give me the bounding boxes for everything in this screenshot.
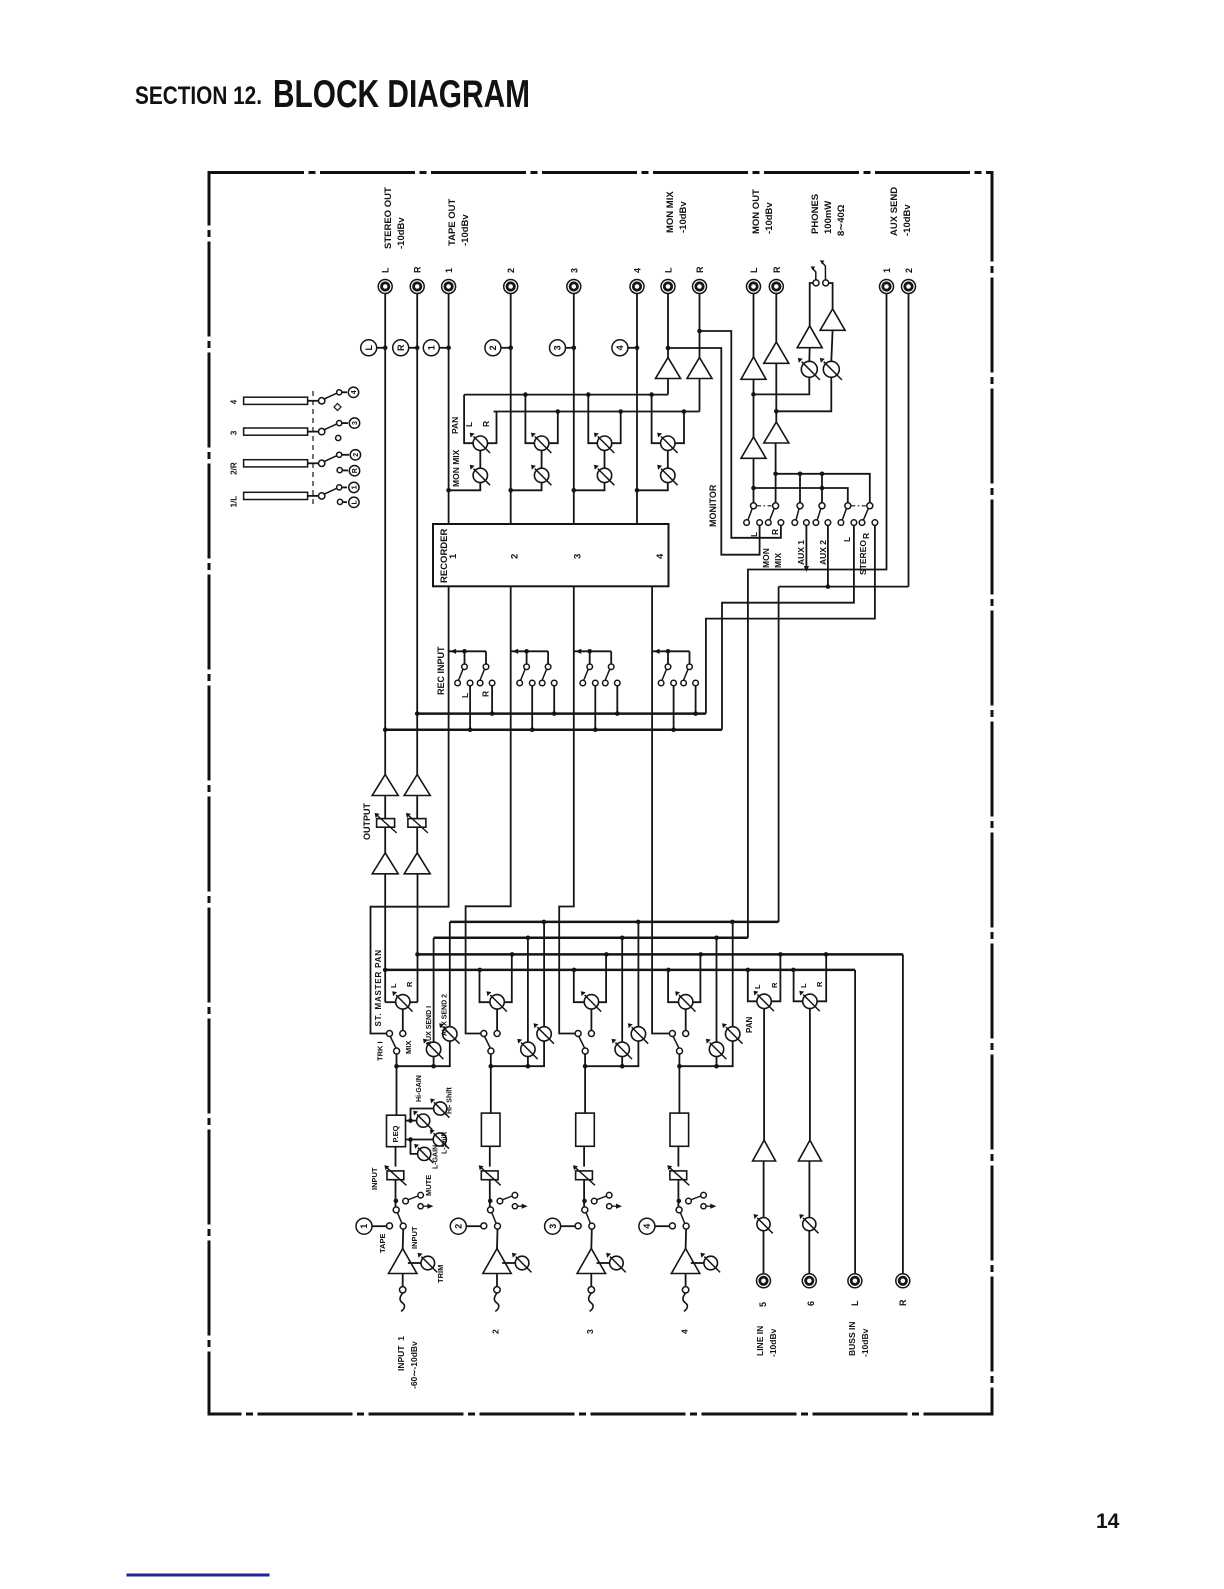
node ref L (tap on L line) bbox=[361, 340, 388, 356]
wire ch3 block to fader bbox=[583, 1147, 585, 1167]
label MON MIX -10dBv bbox=[665, 191, 689, 233]
svg-text:-10dBv: -10dBv bbox=[460, 214, 471, 246]
svg-text:LINE IN: LINE IN bbox=[755, 1326, 765, 1356]
svg-text:3: 3 bbox=[585, 1329, 595, 1334]
labels line pan L R bbox=[745, 981, 824, 1033]
wire mon mix pot 3 input tap bbox=[572, 483, 605, 493]
jack BUSS IN R bbox=[896, 1274, 910, 1288]
svg-text:PHONES: PHONES bbox=[810, 194, 821, 234]
pot TRIM ch1 bbox=[408, 1253, 437, 1273]
svg-text:MON OUT: MON OUT bbox=[751, 189, 762, 234]
node meter select 3 bbox=[336, 418, 360, 441]
fader INPUT ch3 bbox=[573, 1165, 595, 1185]
wire rec line 1 (recorder to trk1 feed) bbox=[371, 586, 449, 1033]
op-amp MON OUT R (driver) bbox=[764, 342, 789, 363]
wire rec input 4 L to bus bbox=[671, 686, 676, 732]
svg-text:MONITOR: MONITOR bbox=[708, 484, 718, 527]
label REC INPUT bbox=[436, 646, 446, 695]
svg-text:R: R bbox=[481, 421, 491, 427]
svg-text:3: 3 bbox=[230, 430, 239, 435]
wire ch3 input jack lead bbox=[590, 1274, 592, 1287]
op-amp line in 6 bbox=[798, 1140, 821, 1161]
svg-text:1/L: 1/L bbox=[230, 496, 239, 508]
switch monitor select 6 bbox=[859, 503, 878, 526]
svg-text:INPUT 1: INPUT 1 bbox=[396, 1336, 406, 1371]
wire master L bus riser bbox=[383, 874, 388, 1002]
jack mon mix R bbox=[693, 266, 707, 294]
wire ch2 trunk upper bbox=[489, 1054, 494, 1115]
svg-text:3: 3 bbox=[548, 1224, 558, 1229]
wire aux2 ch1 riser bbox=[449, 922, 451, 1027]
svg-text:2: 2 bbox=[353, 453, 360, 457]
node meter select 2/R bbox=[337, 450, 360, 476]
svg-text:L-GAIN: L-GAIN bbox=[433, 1145, 440, 1169]
svg-text:P.EQ: P.EQ bbox=[391, 1125, 400, 1142]
wire line5 pan L leg bbox=[748, 970, 757, 1001]
input jack ch2 bbox=[494, 1287, 500, 1312]
bus stereo master R (y=954.4) bbox=[418, 952, 903, 957]
svg-text:3: 3 bbox=[352, 421, 359, 425]
wire line5 pan R leg bbox=[771, 954, 780, 1001]
bus monitor select L (y=488) bbox=[754, 486, 848, 503]
pot LINE PAN 6 bbox=[799, 991, 819, 1011]
wire mon mix L tap to monitor switch bbox=[666, 346, 760, 555]
svg-text:MON MIX: MON MIX bbox=[665, 191, 676, 233]
svg-text:L: L bbox=[749, 532, 759, 537]
wire ch2 input jack lead bbox=[496, 1274, 498, 1287]
svg-text:TRK I: TRK I bbox=[376, 1041, 385, 1061]
wire rec line 3 (recorder to trk3 feed) bbox=[559, 586, 575, 1033]
jack mon mix L bbox=[661, 267, 675, 294]
switch MIX/TRK ch1 bbox=[387, 1031, 406, 1055]
input jack ch4 bbox=[682, 1287, 688, 1312]
svg-text:L: L bbox=[753, 984, 762, 989]
bus aux send 2 link bbox=[779, 584, 909, 589]
node ref 3 (tap on 3 line) bbox=[550, 340, 577, 356]
switch MUTE ch3 bbox=[591, 1192, 622, 1208]
svg-text:AUX 1: AUX 1 bbox=[796, 540, 806, 565]
wire rec line 2 (recorder to trk2 feed) bbox=[466, 586, 511, 1033]
wire pan 3 R leg bbox=[612, 412, 621, 444]
wire aux1 ch4 riser bbox=[716, 938, 718, 1042]
wire ch3 input contact to trim amp bbox=[590, 1229, 593, 1249]
wire eq lo tap bbox=[406, 1137, 434, 1142]
pot ST MASTER PAN ch3 bbox=[581, 991, 601, 1011]
svg-text:1: 1 bbox=[427, 345, 437, 350]
phones plug contacts bbox=[811, 260, 829, 286]
svg-text:BLOCK DIAGRAM: BLOCK DIAGRAM bbox=[273, 73, 530, 116]
input jack ch1 bbox=[400, 1287, 406, 1312]
wire ch2 aux tap bbox=[491, 1041, 544, 1068]
svg-text:R: R bbox=[861, 533, 871, 539]
svg-text:BUSS IN: BUSS IN bbox=[847, 1322, 857, 1356]
input jack ch3 bbox=[588, 1287, 594, 1312]
jack mon out R bbox=[769, 266, 783, 294]
wire aux1 pole to buses bbox=[799, 474, 801, 506]
wire rec input 3 L to bus bbox=[593, 686, 598, 732]
op-amp output L (sum amp) bbox=[372, 853, 398, 874]
wire stereo L source feed bbox=[722, 526, 854, 730]
svg-text:100mW: 100mW bbox=[823, 201, 834, 234]
wire stereo-out R jack to output amp R bbox=[416, 294, 418, 775]
svg-text:R: R bbox=[772, 266, 782, 273]
wire ch2 fader to mute bbox=[488, 1180, 493, 1207]
pot AUX SEND 1 ch3 bbox=[612, 1039, 632, 1067]
wire pan 2 R leg bbox=[549, 412, 558, 444]
label L/R pan outs bbox=[464, 421, 491, 427]
wire rec input 1 L to bus bbox=[468, 686, 473, 732]
meter bar 3 bbox=[230, 421, 342, 436]
wire ch4 input contact to trim amp bbox=[685, 1229, 688, 1249]
svg-text:5: 5 bbox=[758, 1302, 768, 1307]
svg-text:MIX: MIX bbox=[404, 1041, 413, 1054]
op-amp TRIM ch3 bbox=[577, 1249, 605, 1274]
label PAN (pots) bbox=[450, 417, 460, 434]
svg-text:PAN: PAN bbox=[450, 417, 460, 434]
pot line in 6 trim bbox=[799, 1214, 818, 1233]
svg-text:8∼40Ω: 8∼40Ω bbox=[836, 204, 847, 236]
svg-text:4: 4 bbox=[351, 390, 358, 394]
wire mon mix R amp out to jack bbox=[699, 294, 701, 358]
node tape ref 2 bbox=[450, 1218, 480, 1234]
label MON MIX (pots) bbox=[451, 449, 461, 487]
svg-text:L: L bbox=[799, 983, 808, 988]
wire monitor R amp in from selector bbox=[773, 443, 778, 506]
wire pan 3 L leg bbox=[588, 395, 597, 444]
wire mon out R jack lead bbox=[775, 294, 777, 343]
wire pan 4 L leg bbox=[652, 395, 661, 444]
node tape ref 1 bbox=[356, 1218, 386, 1234]
switch MUTE ch4 bbox=[686, 1192, 717, 1208]
wire monitor R interstage bbox=[774, 363, 779, 422]
pot ST MASTER PAN ch2 bbox=[487, 991, 507, 1011]
wire tape line 2 (jack to recorder) bbox=[510, 294, 512, 525]
svg-text:L: L bbox=[381, 267, 391, 273]
op-amp TRIM ch4 bbox=[671, 1249, 699, 1274]
svg-text:L: L bbox=[389, 983, 398, 988]
label MONITOR bbox=[708, 484, 718, 527]
pot ST MASTER PAN ch4 bbox=[675, 991, 695, 1011]
svg-text:REC INPUT: REC INPUT bbox=[436, 646, 446, 695]
node tape ref 4 bbox=[639, 1218, 669, 1234]
pot AUX SEND 1 ch4 bbox=[706, 1039, 726, 1067]
wire aux send 2 to channel bus bbox=[778, 587, 780, 922]
bus rec input R (stereo R return, y=713.6) bbox=[415, 711, 706, 716]
op-amp phones R bbox=[820, 309, 845, 331]
bus stereo master L (y=969.9) bbox=[385, 968, 855, 973]
wire mix contact ch4 bbox=[685, 1009, 687, 1031]
node meter select 1/L bbox=[337, 482, 359, 507]
svg-text:-10dBv: -10dBv bbox=[764, 202, 775, 234]
label INPUT 1 level bbox=[396, 1336, 419, 1389]
wire pan 4 R leg bbox=[675, 412, 684, 444]
wire ch2 block to fader bbox=[489, 1147, 491, 1167]
wire aux2 pole to buses bbox=[821, 474, 823, 506]
wire line6 jack lead bbox=[808, 1231, 810, 1274]
wire phones L pot to amp bbox=[808, 348, 810, 362]
label input 2 bbox=[491, 1329, 501, 1334]
wire pan 1 L leg bbox=[464, 395, 473, 444]
wire tape line 3 (jack to recorder) bbox=[573, 294, 575, 525]
wire ch4 block to fader bbox=[677, 1147, 679, 1167]
wire tape line 1 (jack to recorder) bbox=[448, 294, 450, 525]
wire buss in R lead bbox=[902, 954, 904, 1273]
footer bar bbox=[127, 1574, 270, 1577]
fader INPUT ch2 bbox=[479, 1165, 501, 1185]
wire aux send 1 jack lead bbox=[748, 294, 887, 938]
switch TAPE/INPUT ch4 bbox=[669, 1207, 689, 1229]
mech link monitor L/R (stereo) bbox=[851, 505, 866, 507]
svg-text:AUX SEND 2: AUX SEND 2 bbox=[442, 994, 449, 1036]
wire aux1 ch3 riser bbox=[621, 938, 623, 1042]
wire buss in L lead bbox=[854, 970, 856, 1274]
switch REC INPUT channel 4 bbox=[652, 649, 698, 686]
pot AUX SEND 2 ch2 bbox=[534, 1023, 554, 1043]
wire eq hi-shift branch bbox=[411, 1109, 434, 1121]
op-amp output L (line amp) bbox=[372, 775, 398, 796]
pot MON PAN 2 bbox=[531, 433, 551, 453]
svg-text:TRIM: TRIM bbox=[436, 1265, 445, 1283]
labels EQ pots bbox=[416, 1075, 454, 1169]
svg-text:-10dBv: -10dBv bbox=[396, 217, 407, 249]
svg-text:R: R bbox=[396, 344, 406, 351]
svg-text:3: 3 bbox=[573, 554, 584, 559]
wire master R bus riser bbox=[415, 874, 420, 1002]
jack aux send 2 bbox=[902, 268, 916, 294]
pot PHONES level L bbox=[798, 358, 820, 380]
labels rec input L R bbox=[460, 691, 491, 698]
op-amp monitor L (buffer) bbox=[741, 437, 766, 458]
node ref 4 (tap on 4 line) bbox=[612, 340, 639, 356]
svg-text:TAPE OUT: TAPE OUT bbox=[447, 198, 458, 246]
wire rec input 3 R to bus bbox=[615, 686, 620, 716]
pot AUX SEND 2 ch3 bbox=[628, 1023, 648, 1043]
switch MIX/TRK ch4 bbox=[669, 1031, 688, 1055]
node ref 2 (tap on 2 line) bbox=[485, 340, 513, 356]
switch monitor select 1 bbox=[744, 503, 763, 526]
op-amp TRIM ch2 bbox=[483, 1249, 511, 1274]
meter bar 1/L bbox=[230, 485, 342, 508]
op-amp TRIM ch1 bbox=[389, 1249, 417, 1274]
labels monitor selector sources bbox=[749, 529, 871, 575]
bus MON MIX pan R (y=411.5) bbox=[494, 409, 700, 414]
pot MON PAN 1 bbox=[470, 433, 490, 453]
op-amp MON MIX L bbox=[656, 358, 681, 379]
svg-text:2/R: 2/R bbox=[230, 462, 239, 475]
svg-text:-10dBv: -10dBv bbox=[860, 1328, 870, 1357]
wire ch3 trunk upper bbox=[583, 1054, 588, 1115]
svg-text:1: 1 bbox=[882, 268, 892, 273]
svg-text:L: L bbox=[664, 267, 674, 273]
pot TRIM ch3 bbox=[597, 1253, 626, 1273]
wire line5 amp to pan bbox=[763, 1009, 765, 1141]
wire mon mix L amp out to jack bbox=[667, 294, 669, 358]
wire line6 pan L leg bbox=[794, 970, 803, 1001]
block channel 4 (eq) bbox=[670, 1113, 689, 1146]
label input 4 bbox=[679, 1329, 689, 1334]
svg-text:MIX: MIX bbox=[773, 553, 783, 568]
svg-text:4: 4 bbox=[633, 268, 643, 273]
label AUX SEND -10dBv bbox=[889, 187, 913, 236]
wire ch2 input contact to trim amp bbox=[496, 1229, 499, 1249]
wire ch1 input jack lead bbox=[402, 1274, 404, 1287]
svg-text:Hi-GAIN: Hi-GAIN bbox=[416, 1075, 423, 1102]
svg-text:R: R bbox=[405, 981, 414, 987]
wire mix contact ch3 bbox=[590, 1009, 592, 1031]
op-amp output R (sum amp) bbox=[404, 853, 430, 874]
wire output R amp-fader bbox=[416, 796, 418, 819]
svg-text:R: R bbox=[695, 266, 705, 273]
block RECORDER bbox=[433, 524, 669, 586]
svg-text:4: 4 bbox=[615, 345, 625, 350]
svg-text:L: L bbox=[460, 693, 470, 698]
bus AUX SEND 2 (y=921.9) bbox=[450, 920, 779, 925]
svg-text:ST. MASTER PAN: ST. MASTER PAN bbox=[374, 949, 383, 1026]
op-amp MON MIX R bbox=[687, 358, 712, 379]
svg-text:14: 14 bbox=[1096, 1510, 1120, 1533]
svg-text:2: 2 bbox=[488, 345, 498, 350]
node tape ref 3 bbox=[545, 1218, 575, 1234]
pot MON MIX 4 bbox=[657, 451, 677, 486]
wire phones L pot input tap bbox=[754, 377, 810, 394]
wire ch4 aux tap bbox=[679, 1041, 732, 1068]
svg-text:1: 1 bbox=[448, 553, 459, 559]
fader MASTER R bbox=[406, 813, 428, 833]
pot AUX SEND 1 ch1 bbox=[423, 1039, 443, 1067]
jack stereo out R bbox=[410, 266, 424, 294]
pot AUX SEND 2 ch1 bbox=[439, 1023, 459, 1043]
jack BUSS IN L bbox=[848, 1274, 862, 1288]
jack LINE IN 5 bbox=[757, 1274, 771, 1288]
diagram border frame bbox=[209, 173, 992, 1415]
wire line6 pan R leg bbox=[817, 954, 826, 1001]
switch TAPE/INPUT ch3 bbox=[575, 1207, 595, 1229]
wire mon mix R tap to monitor switch bbox=[697, 329, 781, 538]
svg-text:4: 4 bbox=[642, 1224, 652, 1229]
wire pan ch1 L leg bbox=[385, 1001, 395, 1003]
wire ch3 fader to mute bbox=[582, 1180, 587, 1207]
wire rec input 2 R to bus bbox=[552, 686, 557, 716]
svg-text:L-Shift: L-Shift bbox=[442, 1131, 449, 1154]
pot ST MASTER PAN ch1 bbox=[392, 991, 412, 1011]
switch MUTE ch2 bbox=[497, 1192, 528, 1208]
wire output L fader-amp bbox=[384, 827, 386, 853]
wire line6 amp to pan bbox=[809, 1009, 811, 1141]
wire eq hi tap bbox=[406, 1118, 417, 1123]
svg-text:4: 4 bbox=[679, 1329, 689, 1334]
label input 3 bbox=[585, 1329, 595, 1334]
svg-text:2: 2 bbox=[506, 268, 516, 273]
svg-text:AUX SEND: AUX SEND bbox=[889, 187, 900, 236]
svg-text:R: R bbox=[815, 981, 824, 987]
labels LINE IN / BUSS IN bbox=[755, 1299, 908, 1357]
node ref R (tap on R line) bbox=[393, 340, 420, 356]
switch REC INPUT channel 2 bbox=[511, 649, 557, 686]
svg-text:PAN: PAN bbox=[745, 1016, 754, 1033]
fader INPUT ch4 bbox=[667, 1165, 689, 1185]
node ref 1 (tap on 1 line) bbox=[423, 340, 451, 356]
pot MON PAN 3 bbox=[594, 433, 614, 453]
block channel 3 (eq) bbox=[576, 1113, 595, 1146]
svg-text:3: 3 bbox=[569, 268, 579, 273]
jack tape out 4 bbox=[630, 268, 644, 294]
wire ch4 input jack lead bbox=[685, 1274, 687, 1287]
wire phones L amp to plug bbox=[810, 283, 813, 326]
jack mon out L bbox=[747, 267, 761, 294]
meter bar 4 bbox=[230, 390, 342, 405]
svg-text:Hi- Shift: Hi- Shift bbox=[447, 1087, 454, 1114]
wire pan 1 R leg bbox=[488, 412, 497, 444]
svg-text:-10dBv: -10dBv bbox=[902, 204, 913, 236]
svg-text:4: 4 bbox=[655, 553, 666, 559]
svg-text:R: R bbox=[352, 468, 359, 473]
wire ch4 trunk upper bbox=[677, 1054, 682, 1115]
jack LINE IN 6 bbox=[802, 1274, 816, 1288]
label STEREO OUT -10dBv bbox=[383, 187, 407, 249]
bus monitor select R (y=473.8) bbox=[776, 472, 870, 503]
wire phones R amp to plug bbox=[829, 283, 833, 309]
op-amp output R (line amp) bbox=[404, 775, 430, 796]
label TAPE OUT -10dBv bbox=[447, 198, 471, 246]
wire pan ch4 R leg bbox=[693, 954, 701, 1002]
wire mon out L jack lead bbox=[753, 294, 755, 357]
wire ch1 trunk upper bbox=[394, 1054, 399, 1115]
svg-text:L: L bbox=[842, 537, 852, 542]
wire pan ch2 L leg bbox=[480, 970, 490, 1002]
wire pan ch4 L leg bbox=[668, 970, 678, 1002]
pot AUX SEND 1 ch2 bbox=[517, 1039, 537, 1067]
svg-text:L: L bbox=[364, 345, 374, 351]
svg-text:2: 2 bbox=[904, 268, 914, 273]
label PHONES 100mW 8~40ohm bbox=[810, 194, 847, 236]
pot TRIM ch4 bbox=[691, 1253, 720, 1273]
wire monitor L amp in from selector bbox=[751, 458, 756, 506]
wire ch4 fader to mute bbox=[677, 1180, 682, 1207]
switch MUTE ch1 bbox=[403, 1192, 434, 1208]
svg-text:-60∼-10dBv: -60∼-10dBv bbox=[409, 1341, 419, 1389]
svg-text:L: L bbox=[351, 499, 358, 504]
wire rec input 2 L to bus bbox=[530, 686, 535, 732]
svg-text:4: 4 bbox=[230, 399, 239, 404]
svg-text:AUX 2: AUX 2 bbox=[818, 540, 828, 565]
svg-text:L: L bbox=[850, 1300, 860, 1306]
wire output L amp-fader bbox=[384, 796, 386, 819]
wire mon mix pot 2 input tap bbox=[508, 483, 541, 493]
wire pan ch3 L leg bbox=[574, 970, 584, 1002]
svg-text:INPUT: INPUT bbox=[370, 1167, 379, 1190]
wire pan 2 L leg bbox=[525, 395, 534, 444]
svg-text:R: R bbox=[770, 529, 780, 535]
svg-text:R: R bbox=[413, 266, 423, 273]
jack aux send 1 bbox=[880, 268, 894, 294]
pot PHONES level R bbox=[820, 358, 842, 380]
meter gang line (dashed) bbox=[312, 391, 314, 508]
svg-text:STEREO OUT: STEREO OUT bbox=[383, 187, 394, 249]
fader MASTER L bbox=[375, 813, 397, 833]
wire aux1 source stub bbox=[804, 526, 809, 572]
svg-text:2: 2 bbox=[510, 554, 521, 559]
wire stereo R source feed bbox=[706, 526, 875, 714]
wire phones R pot input tap bbox=[776, 377, 831, 411]
wire ch1 input contact to trim amp bbox=[402, 1229, 405, 1249]
wire eq lo-gain branch bbox=[411, 1140, 418, 1154]
wire pan ch3 R leg bbox=[598, 954, 606, 1002]
wire ch1 fader to mute bbox=[394, 1180, 399, 1207]
jack tape out 2 bbox=[504, 268, 518, 294]
svg-text:R: R bbox=[770, 982, 779, 988]
pot line in 5 trim bbox=[754, 1214, 773, 1233]
op-amp monitor R (buffer) bbox=[764, 422, 789, 443]
